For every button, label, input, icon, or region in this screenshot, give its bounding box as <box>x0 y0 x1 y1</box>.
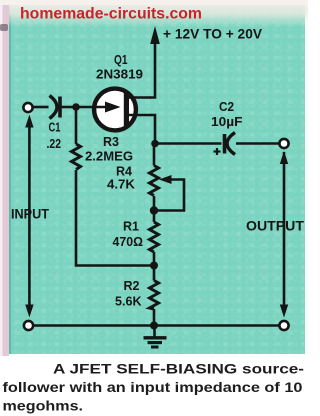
wire node A to C2 <box>155 142 222 145</box>
wire input terminal to C1 <box>34 106 49 109</box>
svg-text:R3: R3 <box>103 135 119 149</box>
svg-text:Q1: Q1 <box>114 53 128 67</box>
output terminal node <box>279 139 288 148</box>
white fade band at top <box>9 0 308 27</box>
wire supply rail vertical <box>150 42 155 98</box>
wire R2 to ground rail <box>153 309 156 326</box>
potentiometer R4 <box>150 166 159 196</box>
darker teal left edge of block <box>9 0 11 354</box>
svg-text:.22: .22 <box>47 137 62 151</box>
input terminal node <box>23 103 32 112</box>
wire C1 to gate junction <box>62 106 77 109</box>
svg-text:2N3819: 2N3819 <box>96 67 143 82</box>
wire bottom ground rail <box>34 324 279 327</box>
wire INPUT port arrow <box>25 115 33 318</box>
wire R3 bottom to R1/R2 junction <box>76 170 154 266</box>
scan smudge top-left <box>0 24 8 31</box>
svg-text:5.6K: 5.6K <box>115 295 142 309</box>
wire node A to R4 <box>153 144 156 166</box>
capacitor C1 <box>50 96 61 119</box>
svg-text:R4: R4 <box>116 165 132 179</box>
caption text <box>3 361 305 414</box>
svg-text:10µF: 10µF <box>211 115 243 129</box>
pink left margin strip <box>0 0 9 356</box>
resistor R2 <box>150 281 159 310</box>
teal schematic background <box>9 0 305 354</box>
capacitor C2 <box>225 133 236 155</box>
ground <box>144 326 167 348</box>
potentiometer R4 wiper arrow <box>159 175 172 184</box>
wire source to node A <box>150 115 155 144</box>
input ground terminal node <box>24 321 33 330</box>
svg-text:470Ω: 470Ω <box>113 235 144 249</box>
wire C2 to output terminal <box>236 142 279 145</box>
svg-text:C2: C2 <box>219 100 234 114</box>
svg-text:R2: R2 <box>124 279 140 293</box>
svg-text:R1: R1 <box>123 220 139 234</box>
svg-text:A JFET SELF-BIASING source-: A JFET SELF-BIASING source- <box>53 361 304 377</box>
wire R1 to R2 <box>153 252 156 281</box>
node R4 bottom junction <box>150 206 158 214</box>
wire R3 branch down <box>75 107 78 144</box>
svg-text:follower with an input impedan: follower with an input impedance of 10 <box>3 379 303 395</box>
resistor R3 <box>72 144 81 170</box>
svg-text:+ 12V TO + 20V: + 12V TO + 20V <box>163 27 262 42</box>
node R1/R2 junction <box>150 262 158 270</box>
transistor Q1 2N3819 JFET <box>76 89 151 131</box>
svg-text:4.7K: 4.7K <box>107 178 135 192</box>
supply arrow <box>150 26 160 44</box>
svg-text:INPUT: INPUT <box>11 207 50 222</box>
node ground rail junction <box>150 322 158 330</box>
wire R4 to R1 <box>153 196 156 222</box>
resistor R1 <box>150 222 159 252</box>
node A source junction <box>151 140 159 148</box>
output ground terminal node <box>279 321 288 330</box>
svg-text:C1: C1 <box>49 121 61 135</box>
svg-text:homemade-circuits.com: homemade-circuits.com <box>20 6 202 23</box>
node gate junction <box>72 103 80 111</box>
wire OUTPUT port arrow <box>280 151 288 318</box>
svg-text:2.2MEG: 2.2MEG <box>85 150 133 164</box>
wire R4 wiper loop <box>157 180 184 211</box>
svg-text:OUTPUT: OUTPUT <box>246 219 305 234</box>
svg-text:megohms.: megohms. <box>3 398 84 414</box>
label C2 polarity plus <box>214 148 221 155</box>
